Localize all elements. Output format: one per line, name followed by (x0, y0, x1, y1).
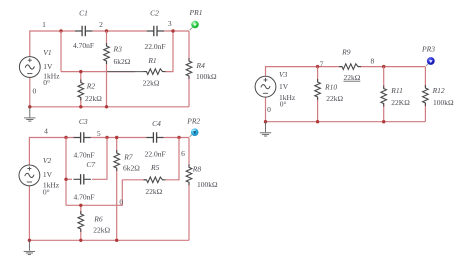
svg-text:8: 8 (371, 57, 375, 66)
junction R7 bottom (115, 239, 118, 242)
AC source V2 (19, 156, 60, 196)
svg-text:1V: 1V (43, 170, 53, 179)
capacitor C3 4.70nF (73, 117, 94, 159)
svg-text:100kΩ: 100kΩ (197, 180, 218, 189)
svg-text:22.0nF: 22.0nF (144, 42, 165, 51)
svg-text:C3: C3 (79, 117, 88, 126)
wire: node4 vertical down to R6 rail (65, 138, 67, 206)
svg-text:4.70nF: 4.70nF (73, 41, 94, 50)
svg-text:22kΩ: 22kΩ (145, 187, 162, 196)
svg-text:R10: R10 (324, 83, 337, 92)
svg-text:100kΩ: 100kΩ (196, 72, 217, 81)
AC source V3 (255, 70, 296, 109)
probe PR3 (421, 45, 435, 66)
capacitor C1 4.70nF (73, 9, 94, 51)
svg-text:4.70nF: 4.70nF (73, 193, 94, 202)
svg-text:1V: 1V (279, 82, 289, 91)
junction R3 bottom (105, 105, 108, 108)
svg-text:4: 4 (44, 127, 48, 136)
svg-text:1: 1 (42, 20, 46, 29)
node 1 (42, 20, 63, 33)
svg-text:0°: 0° (43, 187, 50, 196)
svg-text:6: 6 (181, 149, 185, 158)
resistor R8 100k vertical (186, 138, 219, 241)
svg-text:1V: 1V (43, 62, 53, 71)
wire: top rail net 4/5/6 from V2 top to R8 corner (29, 138, 189, 166)
svg-text:22kΩ: 22kΩ (93, 226, 110, 235)
svg-text:0: 0 (33, 86, 37, 95)
junction R2 bottom (79, 105, 82, 108)
junction R10 top (316, 120, 319, 123)
svg-text:PR1: PR1 (189, 8, 203, 17)
node 7 (316, 59, 324, 68)
svg-text:22kΩ: 22kΩ (343, 73, 360, 82)
AC source V1 (19, 48, 60, 87)
wire: node5 vertical down to C7 branch (92, 138, 107, 180)
node 5 (97, 129, 109, 139)
capacitor C2 22.0nF (144, 9, 165, 51)
svg-text:C4: C4 (152, 119, 161, 128)
svg-text:7: 7 (320, 59, 324, 68)
ground symbol circuit 2 (24, 240, 35, 254)
junction R6 bottom (79, 239, 82, 242)
wire: top rail net 7/8 from V3 top to R12 corner (266, 67, 426, 77)
node 8 (371, 57, 386, 69)
junction ground 3 (264, 120, 267, 123)
svg-text:5: 5 (97, 129, 101, 138)
svg-text:2: 2 (99, 20, 103, 29)
svg-text:0°: 0° (43, 78, 50, 87)
svg-text:C1: C1 (79, 9, 88, 18)
wire: top rail net 1/2/3 from V1 top to R4 corner (30, 31, 189, 57)
svg-text:0: 0 (267, 105, 271, 114)
svg-text:PR2: PR2 (186, 117, 200, 126)
wire: bottom ground rail circuit 1 (30, 77, 189, 106)
wire: bottom ground rail circuit 2 (29, 186, 189, 241)
svg-text:6k2Ω: 6k2Ω (123, 164, 140, 173)
resistor R12 100k vertical (422, 67, 454, 122)
svg-text:PR3: PR3 (421, 45, 435, 54)
svg-text:R6: R6 (93, 214, 103, 223)
ground symbol circuit 3 (260, 122, 271, 136)
node 4 (44, 127, 68, 140)
node 3 (168, 19, 175, 33)
svg-text:22kΩ: 22kΩ (326, 94, 343, 103)
wire: R6 rail from node4 vertical to R5 jog (66, 180, 122, 206)
svg-text:R4: R4 (196, 61, 206, 70)
resistor R6 22k vertical (77, 204, 110, 241)
wire: node1 vertical to mid rail (60, 31, 62, 72)
svg-text:6k2Ω: 6k2Ω (114, 57, 131, 66)
probe PR2 (186, 117, 200, 137)
svg-text:V3: V3 (279, 70, 288, 79)
wire: bottom ground rail circuit 3 (266, 97, 426, 122)
svg-text:V1: V1 (43, 48, 51, 57)
node 2 (99, 20, 108, 33)
svg-text:C2: C2 (150, 9, 159, 18)
ground symbol circuit 1 (24, 107, 35, 121)
svg-text:V2: V2 (43, 156, 52, 165)
svg-text:R3: R3 (113, 45, 123, 54)
resistor R7 6k2 vertical net5 to ground rail (113, 136, 140, 241)
capacitor C7 4.70nF parallel branch (64, 160, 95, 202)
svg-text:R5: R5 (150, 163, 160, 172)
svg-text:R8: R8 (192, 164, 202, 173)
capacitor C4 22.0nF (145, 119, 166, 159)
svg-text:22.0nF: 22.0nF (145, 150, 166, 159)
resistor R9 22k horizontal (inline top rail) (339, 48, 361, 82)
junction ground 1 (28, 105, 31, 108)
svg-text:R7: R7 (123, 152, 133, 161)
resistor R3 6k2 vertical node2 to ground rail (103, 31, 131, 107)
svg-text:R11: R11 (390, 86, 403, 95)
svg-text:22kΩ: 22kΩ (143, 79, 160, 88)
junction ground 2 (28, 239, 31, 242)
svg-text:0: 0 (119, 198, 123, 207)
resistor R4 100k vertical (186, 31, 218, 107)
resistor R10 22k vertical (314, 67, 343, 122)
svg-text:R12: R12 (432, 86, 445, 95)
svg-text:0°: 0° (280, 100, 287, 109)
wire: mid rail (net 1) with R1 inline (61, 31, 173, 72)
svg-text:C7: C7 (86, 160, 95, 169)
junction R11 bottom (382, 120, 385, 123)
node 6 (177, 136, 185, 158)
svg-text:R9: R9 (341, 48, 351, 57)
svg-text:22KΩ: 22KΩ (391, 98, 410, 107)
resistor R11 22K vertical (380, 67, 410, 122)
svg-text:R2: R2 (86, 81, 96, 90)
resistor R5 22k horizontal (122, 138, 179, 197)
svg-text:100kΩ: 100kΩ (433, 98, 454, 107)
resistor R1 22k horizontal (107, 56, 166, 88)
resistor R2 22k vertical (77, 70, 102, 107)
svg-text:R1: R1 (147, 56, 156, 65)
probe PR1 (189, 8, 203, 30)
svg-text:22kΩ: 22kΩ (85, 94, 102, 103)
svg-text:3: 3 (168, 19, 172, 28)
svg-text:4.70nF: 4.70nF (73, 151, 94, 160)
